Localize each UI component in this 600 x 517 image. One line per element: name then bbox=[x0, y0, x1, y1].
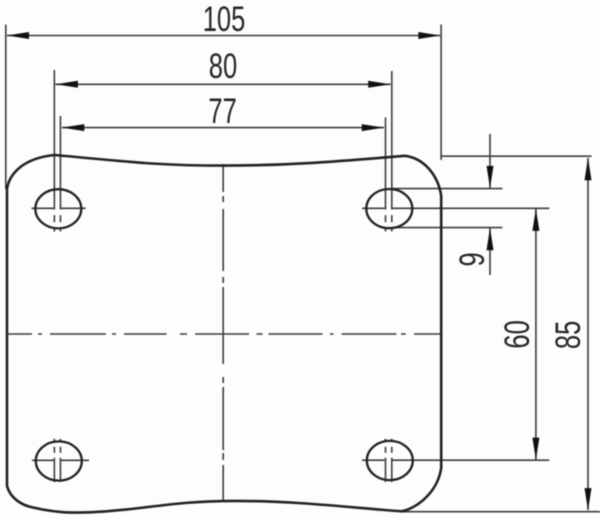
svg-text:60: 60 bbox=[498, 320, 537, 348]
svg-text:80: 80 bbox=[209, 47, 237, 86]
svg-text:9: 9 bbox=[453, 252, 492, 266]
svg-text:77: 77 bbox=[208, 92, 236, 131]
svg-text:105: 105 bbox=[203, 0, 246, 39]
svg-text:85: 85 bbox=[549, 321, 588, 349]
